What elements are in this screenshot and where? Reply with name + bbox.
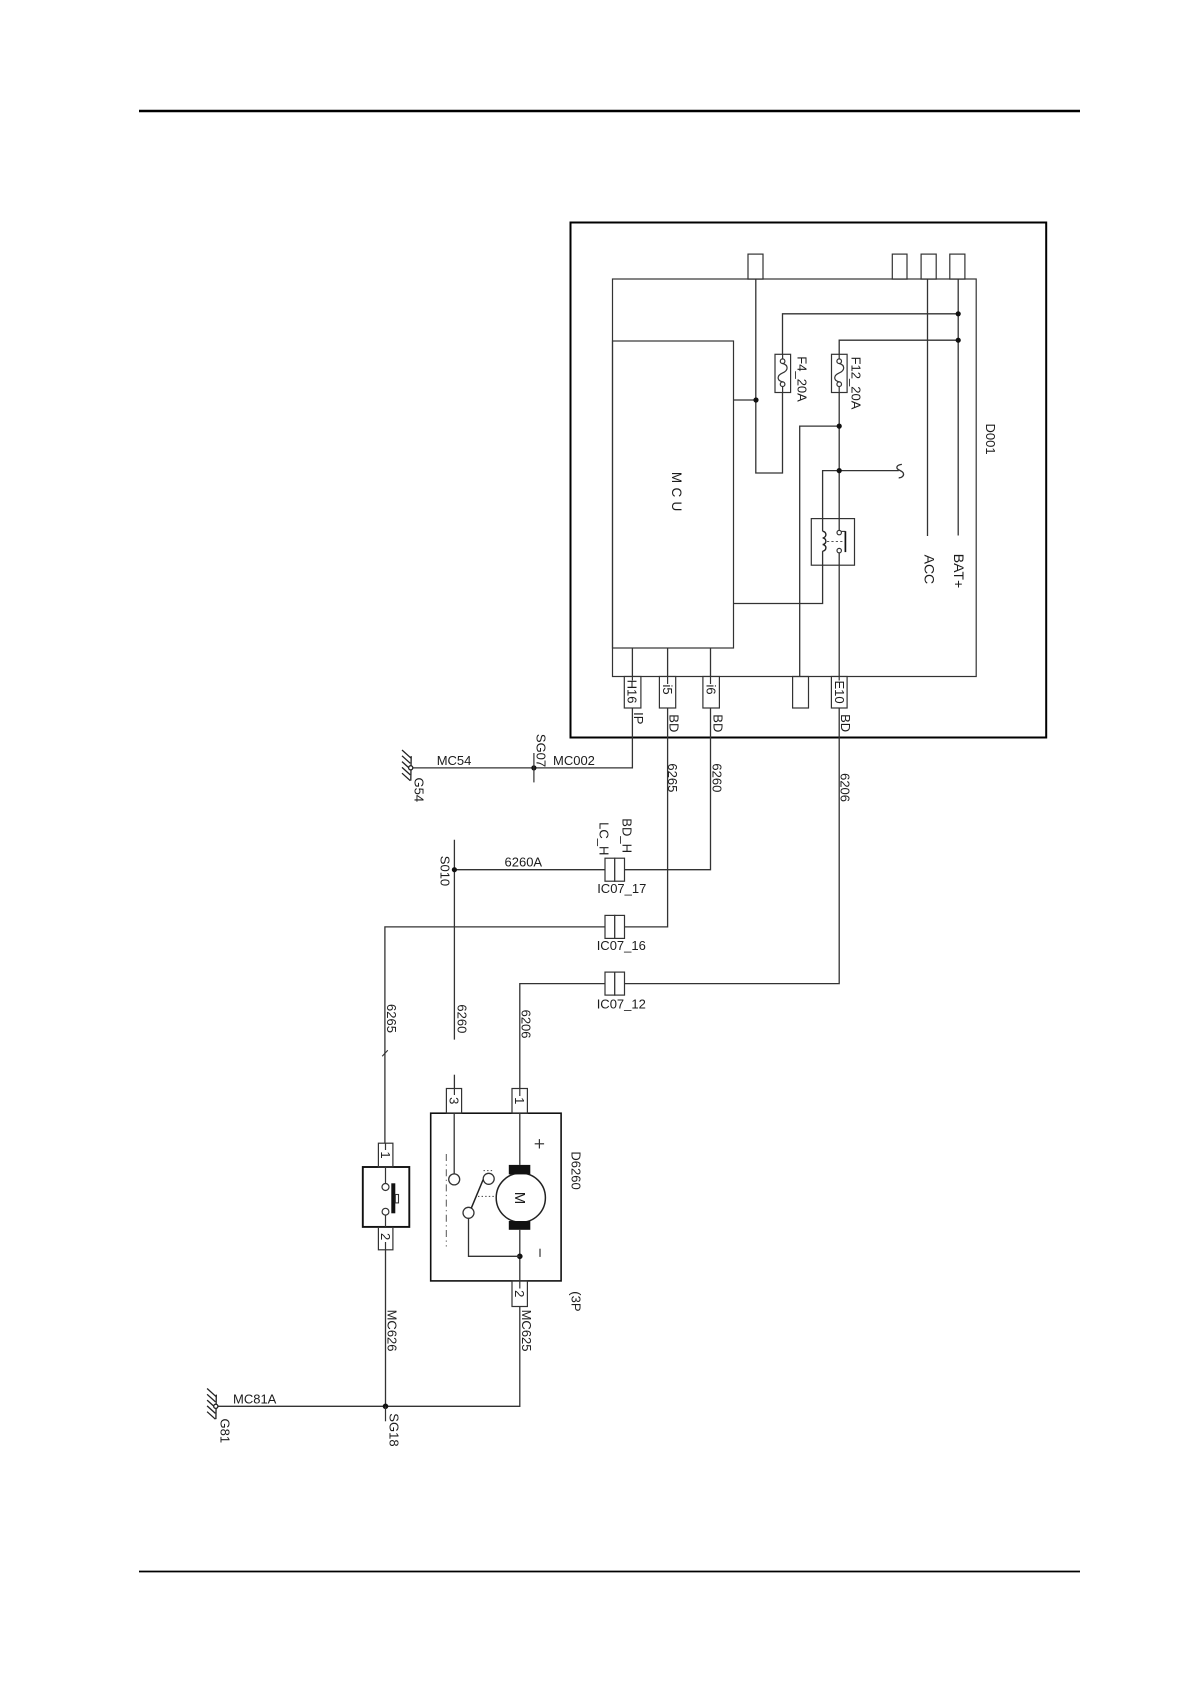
motor switch lower contact	[463, 1207, 474, 1218]
switch pin stubs	[385, 1143, 387, 1250]
svg-text:6260A: 6260A	[505, 855, 543, 870]
dotted link to motor	[478, 1195, 496, 1197]
junction node S010	[452, 867, 457, 872]
svg-text:E10: E10	[832, 681, 847, 704]
junction node SG07	[531, 765, 536, 770]
junction node SG18	[383, 1404, 389, 1410]
pin i6 box	[703, 677, 720, 709]
wire pin1 to brush	[519, 1113, 521, 1165]
wire 6260 stub to motor pin3	[453, 1075, 455, 1089]
top rule	[139, 110, 1080, 112]
motor M circle	[496, 1173, 545, 1222]
svg-text:G81: G81	[217, 1419, 232, 1444]
tick through SG07 node	[533, 753, 535, 782]
junction node BAT+/F12	[956, 338, 961, 343]
squiggle end	[897, 464, 904, 477]
tab B	[892, 254, 907, 279]
relay contact tick	[841, 530, 845, 532]
svg-text:D001: D001	[983, 424, 998, 455]
tab C	[921, 254, 936, 279]
switch S1 pin 2 box	[378, 1227, 393, 1249]
connector box D001 outer	[571, 223, 1047, 738]
svg-text:IC07_16: IC07_16	[597, 938, 646, 953]
wire 6260A connector to S010	[454, 869, 605, 871]
ground G81	[207, 1389, 218, 1420]
wire relay coil to MCU	[734, 551, 823, 603]
svg-text:6206: 6206	[518, 1010, 533, 1039]
fuse F4_20A	[775, 354, 791, 392]
svg-text:1: 1	[378, 1151, 393, 1158]
svg-text:BD: BD	[838, 714, 853, 732]
relay armature bar	[844, 531, 846, 552]
connector IC07_17	[605, 858, 625, 881]
junction node F12/tab wire	[837, 424, 842, 429]
svg-text:MCU: MCU	[669, 472, 684, 516]
junction node F12/coil	[837, 468, 842, 473]
svg-text:3: 3	[446, 1097, 461, 1104]
motor pin 1 box	[512, 1089, 527, 1114]
motor brush top	[509, 1165, 531, 1175]
wire motor minus to pin2	[519, 1230, 521, 1281]
svg-text:2: 2	[512, 1290, 527, 1297]
wire F12 top to BAT+ node	[839, 340, 958, 354]
svg-text:MC54: MC54	[437, 753, 472, 768]
svg-text:F4_20A: F4_20A	[794, 356, 809, 402]
svg-text:BD: BD	[667, 714, 682, 732]
svg-text:MC81A: MC81A	[233, 1391, 277, 1406]
wire F12 bottom to relay contact	[838, 393, 840, 531]
switch S1 contacts	[382, 1166, 389, 1227]
wire pin2 down MC625	[386, 1307, 520, 1407]
relay link dashed	[827, 541, 844, 543]
wire motor switch to minus node	[469, 1218, 520, 1256]
motor unit D6260 box	[431, 1113, 561, 1281]
wire S010 vertical	[453, 840, 455, 1040]
svg-text:ACC: ACC	[921, 555, 937, 585]
wire F4 top to BAT+ node	[783, 314, 959, 355]
wire stubs inside pin boxes	[632, 677, 839, 684]
wire relay contact to pin E10	[838, 553, 840, 708]
relay coil	[823, 531, 826, 551]
wire 6265 to switch pin1	[385, 927, 605, 1143]
wire node to relay coil	[823, 471, 840, 532]
svg-text:IC07_12: IC07_12	[597, 997, 646, 1012]
pin E10 box	[831, 677, 847, 709]
svg-text:H16: H16	[625, 680, 640, 704]
svg-text:SG07: SG07	[534, 734, 549, 767]
svg-text:IP: IP	[631, 712, 646, 724]
svg-text:BD_H: BD_H	[619, 818, 634, 853]
svg-text:2: 2	[378, 1233, 393, 1240]
motor pin 2 box	[512, 1281, 527, 1307]
svg-text:LC_H: LC_H	[597, 822, 612, 855]
wire MC81A ground to SG18	[218, 1405, 386, 1407]
wire BAT+ vertical	[957, 279, 959, 536]
svg-text:6260: 6260	[454, 1004, 469, 1033]
wire tab A down through junction to F4 bottom loop	[756, 279, 783, 473]
dotted link above contact	[484, 1170, 495, 1172]
wire ACC vertical	[927, 279, 929, 536]
wire node to squiggle stub	[839, 470, 899, 472]
MCU box	[613, 341, 734, 648]
svg-text:i5: i5	[660, 685, 675, 695]
switch S1 pin 1 box	[378, 1143, 393, 1167]
svg-text:BAT+: BAT+	[951, 554, 967, 588]
terminal circle pin3	[449, 1174, 460, 1185]
dash-dot guide line	[445, 1154, 447, 1247]
bottom rule	[139, 1571, 1080, 1573]
svg-text:S010: S010	[437, 856, 452, 886]
svg-text:MC626: MC626	[385, 1310, 400, 1352]
fuse F12_20A	[832, 354, 848, 392]
svg-text:BD: BD	[710, 714, 725, 732]
svg-text:SG18: SG18	[386, 1413, 401, 1446]
wire MCU to junction	[734, 399, 757, 401]
connector IC07_16	[605, 915, 625, 938]
svg-text:M: M	[511, 1192, 528, 1205]
svg-text:6265: 6265	[384, 1004, 399, 1033]
svg-text:6206: 6206	[837, 773, 852, 802]
svg-text:D6260: D6260	[569, 1151, 584, 1189]
label minus	[539, 1249, 541, 1257]
wire stub pin1	[519, 1089, 521, 1097]
svg-text:(3P: (3P	[569, 1291, 584, 1311]
wire stub pin2	[519, 1281, 521, 1289]
pin i5 box	[659, 677, 675, 709]
wire MC54 to ground	[413, 767, 534, 769]
fuse/relay inner box	[613, 279, 977, 677]
wire i5 down 6265	[606, 648, 668, 927]
blank tab bottom	[793, 677, 809, 709]
junction node motor minus	[517, 1254, 523, 1260]
svg-text:MC625: MC625	[519, 1310, 534, 1352]
svg-text:6265: 6265	[665, 763, 680, 792]
motor brush bottom	[509, 1221, 531, 1230]
switch S1 button nub	[395, 1195, 398, 1203]
break tick on 6265 wire	[382, 1050, 388, 1056]
motor switch upper contact	[483, 1173, 494, 1184]
relay K1 box	[811, 519, 854, 566]
tab A (top of inner box)	[748, 254, 763, 279]
relay contact circles	[837, 530, 841, 534]
tick through SG18 node	[385, 1406, 387, 1421]
motor switch lever	[471, 1180, 483, 1209]
connector IC07_12	[605, 972, 625, 995]
svg-text:6260: 6260	[709, 763, 724, 792]
wire MC626 switch to SG18	[385, 1250, 387, 1407]
svg-text:i6: i6	[703, 685, 718, 695]
wire H16 to MC002	[534, 648, 633, 768]
label +	[535, 1139, 544, 1148]
svg-text:F12_20A: F12_20A	[849, 357, 864, 410]
wire i6 down 6260	[625, 648, 711, 870]
junction node BAT+/F4	[956, 311, 961, 316]
pin H16 box	[624, 677, 641, 709]
svg-text:G54: G54	[412, 778, 427, 803]
wire IC07_12 left to motor pin1	[520, 984, 605, 1089]
svg-text:MC002: MC002	[553, 753, 595, 768]
wire stub pin3	[453, 1089, 455, 1096]
motor pin 3 box	[446, 1089, 461, 1114]
svg-text:IC07_17: IC07_17	[597, 881, 646, 896]
tab D	[950, 254, 965, 279]
junction node (MCU/F4)	[753, 397, 758, 402]
wire node to blank tab	[800, 426, 840, 676]
wire pin3 to terminal	[453, 1113, 455, 1174]
switch S1 box	[363, 1167, 410, 1227]
wire E10 down 6206	[625, 708, 840, 984]
ground G54	[402, 750, 413, 781]
svg-text:1: 1	[512, 1097, 527, 1104]
switch S1 button bar	[391, 1183, 395, 1213]
